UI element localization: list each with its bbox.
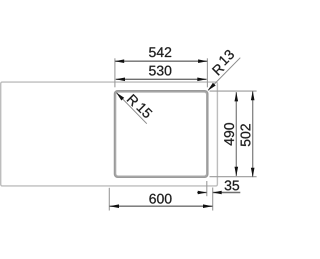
dimension line 490 bbox=[235, 92, 237, 176]
label 600 bbox=[149, 194, 171, 204]
extension line right (542/530) bbox=[206, 58, 208, 87]
dimension line 600 bbox=[109, 205, 212, 207]
dimension 35 left outside arrow bbox=[197, 192, 207, 194]
label R15 bbox=[127, 94, 138, 107]
label R13 bbox=[212, 64, 225, 75]
sink bowl outer edge bbox=[115, 91, 208, 177]
extension line bottom-right horizontal (490/502) bbox=[210, 176, 257, 178]
label 35 bbox=[225, 180, 239, 190]
label 502 bbox=[241, 124, 251, 146]
extension line top-right horizontal (490/502) bbox=[210, 90, 257, 92]
label 542 bbox=[149, 47, 171, 57]
dimension line 542 bbox=[115, 60, 207, 62]
extension line 35/600 right bbox=[212, 188, 214, 211]
extension line left (542/530) bbox=[114, 58, 116, 87]
dimension line 530 bbox=[116, 78, 207, 80]
extension line 35 left bbox=[206, 181, 208, 196]
leader R13 bbox=[208, 58, 240, 91]
sink bowl inner edge bbox=[116, 92, 207, 176]
label 530 bbox=[149, 66, 171, 76]
label 490 bbox=[224, 123, 234, 145]
extension line 600 left bbox=[108, 188, 110, 211]
dimension 35 right outside arrow with leader bbox=[213, 192, 241, 194]
worktop outline bbox=[1, 82, 218, 186]
dimension line 502 bbox=[252, 91, 254, 177]
leader R15 bbox=[116, 92, 147, 123]
